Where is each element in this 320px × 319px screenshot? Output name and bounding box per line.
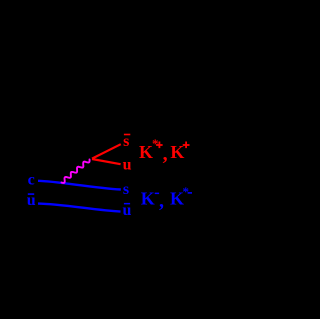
u-bar spectator quark line (blue) [38, 204, 121, 212]
overbar of left u-bar [28, 193, 34, 195]
svg-text:c: c [28, 171, 35, 188]
superscript + of K+ (vertical bar) [185, 142, 187, 149]
overbar of s-bar [124, 134, 130, 136]
s-bar quark line (red) [92, 144, 121, 158]
svg-text:u: u [123, 157, 132, 174]
superscript + of K*+ (vertical bar) [159, 142, 161, 149]
svg-text:K: K [141, 189, 155, 209]
svg-text:s: s [123, 181, 129, 198]
W boson wavy line (magenta) [62, 160, 90, 183]
svg-text:*: * [183, 184, 190, 199]
superscript + of K+ (horizontal bar) [183, 144, 190, 146]
svg-text:,: , [159, 190, 164, 212]
superscript minus of K*- [188, 192, 192, 194]
svg-text:K: K [170, 142, 184, 162]
svg-text:,: , [163, 143, 168, 165]
superscript + of K*+ (horizontal bar) [156, 144, 163, 146]
svg-text:K: K [139, 142, 153, 162]
svg-text:*: * [152, 136, 159, 151]
superscript minus of K- [155, 193, 159, 195]
svg-text:s: s [123, 133, 129, 150]
c quark line (blue) [38, 181, 121, 190]
u quark line (red) [92, 159, 121, 164]
overbar of right u-bar [124, 203, 130, 205]
